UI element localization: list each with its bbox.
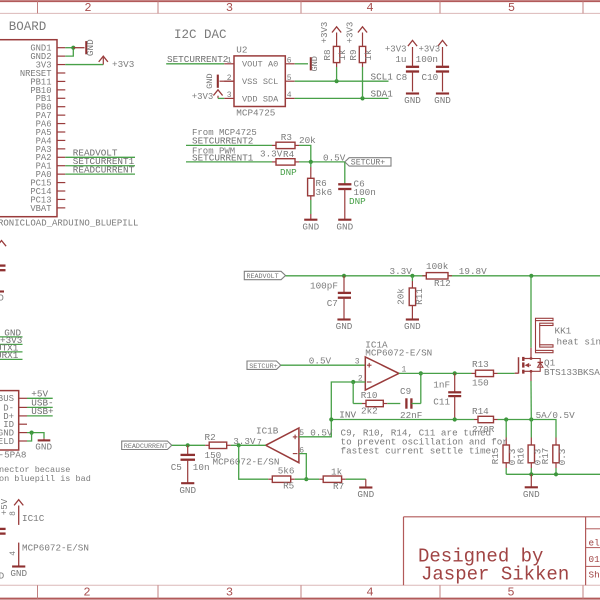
svg-text:5A/0.5V: 5A/0.5V [536,410,575,421]
svg-text:20k: 20k [396,288,407,305]
wire R4 to SETCUR+ [299,161,345,163]
svg-text:GND: GND [357,489,374,500]
svg-text:D: D [0,293,4,304]
svg-text:3.3V: 3.3V [260,148,283,159]
ground below sense rail [530,474,532,487]
svg-text:1u: 1u [395,54,406,65]
svg-text:+3V3: +3V3 [320,22,330,44]
ground below C7 [337,318,350,320]
op-amp IC1A [365,357,399,390]
svg-text:C9: C9 [400,386,411,397]
capacitor C11 1nF [454,373,456,392]
svg-text:01: 01 [589,554,600,565]
svg-text:10n: 10n [193,462,210,473]
svg-text:GND: GND [404,321,421,332]
svg-text:MCP6072-E/SN: MCP6072-E/SN [22,542,89,553]
svg-text:READVOLT: READVOLT [247,273,279,281]
ground right of R7 [365,479,367,487]
resistor R4 DNP [272,161,276,163]
power +3V3 above C8 [408,40,417,46]
resistor R3 20k [272,144,276,146]
svg-text:R8: R8 [322,49,333,60]
svg-text:Jasper Sikken: Jasper Sikken [421,564,569,586]
svg-text:8: 8 [9,511,18,516]
svg-text:VOUT: VOUT [242,60,263,70]
power +3V3 above R8 [332,27,341,33]
junction R3 R4 R6 [309,160,313,164]
power +3V3 at bluepill [102,58,104,65]
capacitor C9 22nF [405,398,407,408]
ground USB [43,438,45,440]
wire IC1B pin6 to fb [299,454,306,480]
svg-text:VBAT: VBAT [30,204,51,214]
power +3V3 at U2 VDD [213,90,222,96]
svg-text:BTS133BKSA1: BTS133BKSA1 [544,367,600,378]
wire R14 to sense rail [498,420,557,438]
wire SDA [295,97,389,99]
bluepill pin stubs [57,47,65,49]
resistor R13 150 [472,372,476,374]
junction SCL R8 [335,79,339,83]
wire READVOLT rail [286,275,600,277]
svg-text:100n: 100n [416,54,438,65]
svg-text:C11: C11 [433,397,450,408]
svg-text:IC1B: IC1B [256,425,279,436]
svg-text:5: 5 [507,586,514,600]
ground below IC1C [12,565,25,567]
ground below C5 [181,482,194,484]
svg-text:R2: R2 [205,432,216,443]
svg-text:0.3: 0.3 [557,449,568,466]
svg-text:GND: GND [302,221,319,232]
svg-text:R13: R13 [472,359,489,370]
junction R15 top [504,417,508,421]
junction IC1B out fb [237,443,241,447]
svg-text:3: 3 [226,1,233,15]
svg-text:+3V3: +3V3 [192,92,214,102]
svg-text:1k: 1k [363,49,374,61]
svg-text:KK1: KK1 [555,326,572,337]
svg-text:3.3V: 3.3V [390,266,413,277]
svg-text:R17: R17 [540,448,551,465]
hier label SETCUR+ (out) [345,158,391,166]
wire SETCURRENT2 to U2 pin1 [166,63,224,65]
hier label READVOLT [244,271,285,279]
svg-text:+3V3: +3V3 [419,45,441,55]
sheet border top [0,0,600,2]
svg-text:MCP6072-E/SN: MCP6072-E/SN [365,347,432,358]
junction drain rail [529,274,533,278]
wire IC1B output [231,444,266,446]
svg-text:R7: R7 [333,481,344,492]
capacitor C5 10n [187,445,189,455]
capacitor C6 100n DNP [344,162,346,184]
svg-text:U2: U2 [236,45,247,56]
resistor R2 150 [205,444,209,446]
svg-text:2: 2 [83,586,90,600]
bluepill module body [0,40,57,217]
svg-text:100pF: 100pF [310,281,338,292]
wire USB gnd [27,433,44,439]
wire R13 to gate [498,372,515,374]
svg-text:BOARD: BOARD [9,20,47,34]
svg-text:C7: C7 [327,298,338,309]
wire C9 up to output [420,373,422,403]
hier label SETCUR+ (in) [247,361,281,369]
junction R11 [410,274,414,278]
svg-text:R16: R16 [515,448,526,465]
svg-text:+3V3: +3V3 [112,59,134,70]
svg-text:GND: GND [205,73,215,88]
junction C5 [186,443,190,447]
resistor R8 1k [333,46,339,62]
svg-text:VDD: VDD [242,94,257,104]
svg-text:GND: GND [404,95,421,106]
power arrow fragment left edge [0,241,6,247]
svg-text:SETCURRENT2: SETCURRENT2 [167,54,228,65]
svg-text:4: 4 [366,1,373,15]
svg-text:SHIELD: SHIELD [0,437,14,447]
svg-text:VSS: VSS [242,77,257,87]
ground below C8 [406,92,419,94]
svg-text:SETCUR+: SETCUR+ [249,363,278,371]
wire PA0 READCURRENT [65,173,135,175]
wire INV rail [331,419,474,421]
svg-text:C8: C8 [396,72,407,83]
wire USB- [27,406,53,408]
junction bluepill gnd [71,46,75,50]
svg-text:4: 4 [287,91,292,100]
svg-text:USB+: USB+ [31,406,54,417]
svg-text:R14: R14 [472,406,489,417]
junction R17 bottom [554,472,558,476]
junction C11 top [453,371,457,375]
junction fb divider [304,477,308,481]
svg-text:fastest current settle time.: fastest current settle time. [341,446,497,457]
svg-text:GND: GND [434,95,451,106]
wire IC1B pin5 [299,436,331,438]
wire pin2 to inv rail [299,382,353,437]
svg-text:R12: R12 [434,278,451,289]
svg-text:1k: 1k [331,467,343,478]
svg-text:MCP6072-E/SN: MCP6072-E/SN [213,456,280,467]
svg-text:READCURRENT: READCURRENT [124,443,168,451]
wire Q1 source down [530,371,532,381]
svg-text:el: el [589,538,600,549]
svg-text:150: 150 [472,377,489,388]
wire 3V3 [65,64,103,66]
svg-text:GND: GND [10,568,27,579]
wire GND1 to junction [65,47,73,49]
power +3V3 above R9 [358,27,367,33]
svg-text:3: 3 [355,358,360,367]
svg-text:INV: INV [339,409,356,420]
svg-text:3: 3 [227,91,232,100]
wire Q1 drain up [530,348,532,359]
wire R7 to gnd [346,478,366,480]
svg-text:R9: R9 [348,49,359,60]
wire USB+ [27,415,53,417]
svg-text:6: 6 [287,57,292,66]
svg-text:MCP4725: MCP4725 [236,108,275,119]
sheet border bottom [0,584,600,586]
USB pin stubs [19,397,27,399]
power +3V3 above C10 [438,40,447,46]
wire SETCURRENT2 to R3 [186,144,272,146]
junction C11 bottom [453,417,457,421]
resistor R17 0.3 [555,438,557,446]
svg-text:R4: R4 [283,149,295,160]
svg-text:4: 4 [366,586,373,600]
wire IC1A pin2 [353,381,365,383]
capacitor C10 100n [436,66,449,68]
svg-text:GND: GND [0,570,5,581]
wire feedback down to R10 [352,382,354,404]
svg-text:4: 4 [9,551,18,556]
wire SETCUR+ to IC1A pin3 [281,364,366,366]
svg-text:3: 3 [226,586,233,600]
resistor R5 5k6 [268,478,272,480]
svg-text:GND: GND [523,489,540,500]
junction SDA R9 [360,96,364,100]
svg-text:heat sink: heat sink [557,337,600,348]
hier label READCURRENT [122,441,172,449]
junction C7 [342,274,346,278]
wire R3 to junction [299,145,311,162]
svg-text:GND: GND [336,321,353,332]
ground symbol U2 VSS (rotated) [220,80,235,82]
junction Q1 source R16 [529,417,533,421]
svg-text:+3V3: +3V3 [385,45,407,55]
heat sink KK1 [536,318,554,320]
transistor Q1 BTS133 (mosfet) [515,372,519,374]
resistor R6 3k6 [310,162,312,167]
wire +5V [27,397,53,399]
op-amp IC1C power pins [14,500,23,506]
IC U2 body [234,56,285,107]
svg-text:C10: C10 [422,72,439,83]
ground below R6 [304,219,317,221]
wire USB shield [27,433,32,441]
ground below C10 [436,92,449,94]
svg-text:R11: R11 [414,288,425,305]
resistor R11 20k [411,276,413,281]
svg-text:-5PA8: -5PA8 [0,450,26,461]
junction USB gnd [30,431,34,435]
svg-text:SETCUR+: SETCUR+ [351,159,385,168]
connector USB body [0,391,19,450]
junction R16 bottom [529,472,533,476]
svg-text:SDA1: SDA1 [371,89,394,100]
junction C9 output [419,371,423,375]
wire SETCURRENT1 to R4 [186,161,272,163]
svg-text:2k2: 2k2 [361,405,378,416]
resistor R9 1k [359,46,365,62]
wire IC1A output [399,372,472,374]
resistor R7 1k [319,478,323,480]
svg-text:0.5V: 0.5V [323,152,346,163]
svg-text:150: 150 [205,450,222,461]
wire fb loop [239,445,269,479]
svg-text:READCURRENT: READCURRENT [73,164,135,175]
capacitor C8 1u [406,66,419,68]
svg-text:1nF: 1nF [433,379,450,390]
svg-text:R5: R5 [283,481,294,492]
ground symbol bluepill (rotated) [73,47,84,49]
wire R5 to R7 [295,478,320,480]
svg-text:Sh: Sh [589,570,600,581]
capacitor C7 100pF [343,276,345,293]
svg-text:7: 7 [257,439,262,448]
resistor R15 0.3 [505,420,507,438]
svg-text:2: 2 [84,1,91,15]
svg-text:GND: GND [85,39,96,56]
svg-text:I2C DAC: I2C DAC [174,28,227,42]
title block frame [404,516,600,518]
svg-text:5k6: 5k6 [278,466,295,477]
resistor R16 0.3 [530,420,532,438]
svg-text:SDA: SDA [263,94,279,104]
svg-text:3k6: 3k6 [316,187,333,198]
ground fragment left edge [0,290,4,292]
op-amp IC1B [266,428,299,463]
svg-text:GND: GND [179,485,196,496]
svg-text:20k: 20k [299,135,316,146]
svg-text:0.5V: 0.5V [309,356,332,367]
svg-text:DNP: DNP [280,167,297,178]
resistor R12 100k [422,275,426,277]
svg-text:R3: R3 [281,132,292,143]
svg-text:RONICLOAD_ARDUINO_BLUEPILL: RONICLOAD_ARDUINO_BLUEPILL [0,219,138,229]
capacitor fragment IC1C [0,528,6,530]
svg-text:5: 5 [287,74,292,83]
ground below C6 [338,219,351,221]
wire SCL [295,80,389,82]
ground symbol U2 A0 (rotated) [295,63,308,65]
svg-text:on bluepill is bad: on bluepill is bad [0,474,91,484]
wire PA2 READVOLT [65,156,135,158]
svg-text:100k: 100k [426,261,449,272]
svg-text:C5: C5 [171,462,182,473]
ground below R11 [406,318,419,320]
svg-text:+3V3: +3V3 [346,22,356,44]
wire GND2 jog [65,48,73,56]
svg-text:GND: GND [336,221,353,232]
svg-text:SCL1: SCL1 [371,72,394,83]
svg-text:GND: GND [310,56,320,71]
wire sense bottom rail [506,473,600,475]
wire READCURRENT to R2 [172,444,205,446]
svg-text:R10: R10 [361,390,378,401]
svg-text:19.8V: 19.8V [459,266,487,277]
junction INV left [329,417,333,421]
svg-text:5: 5 [508,1,515,15]
capacitor fragment left edge [0,264,6,266]
junction IC1A pin2 [351,380,355,384]
svg-text:SCL: SCL [263,77,278,87]
U2 pin stubs [224,63,234,65]
svg-text:A0: A0 [268,60,278,70]
svg-text:DNP: DNP [349,196,366,207]
resistor R14 270R [474,419,478,421]
svg-text:1k: 1k [337,49,348,61]
svg-text:GND: GND [35,441,52,452]
wire PA1 SETCURRENT1 [65,165,135,167]
svg-text:IC1C: IC1C [22,513,45,524]
resistor R10 2k2 [353,403,362,405]
